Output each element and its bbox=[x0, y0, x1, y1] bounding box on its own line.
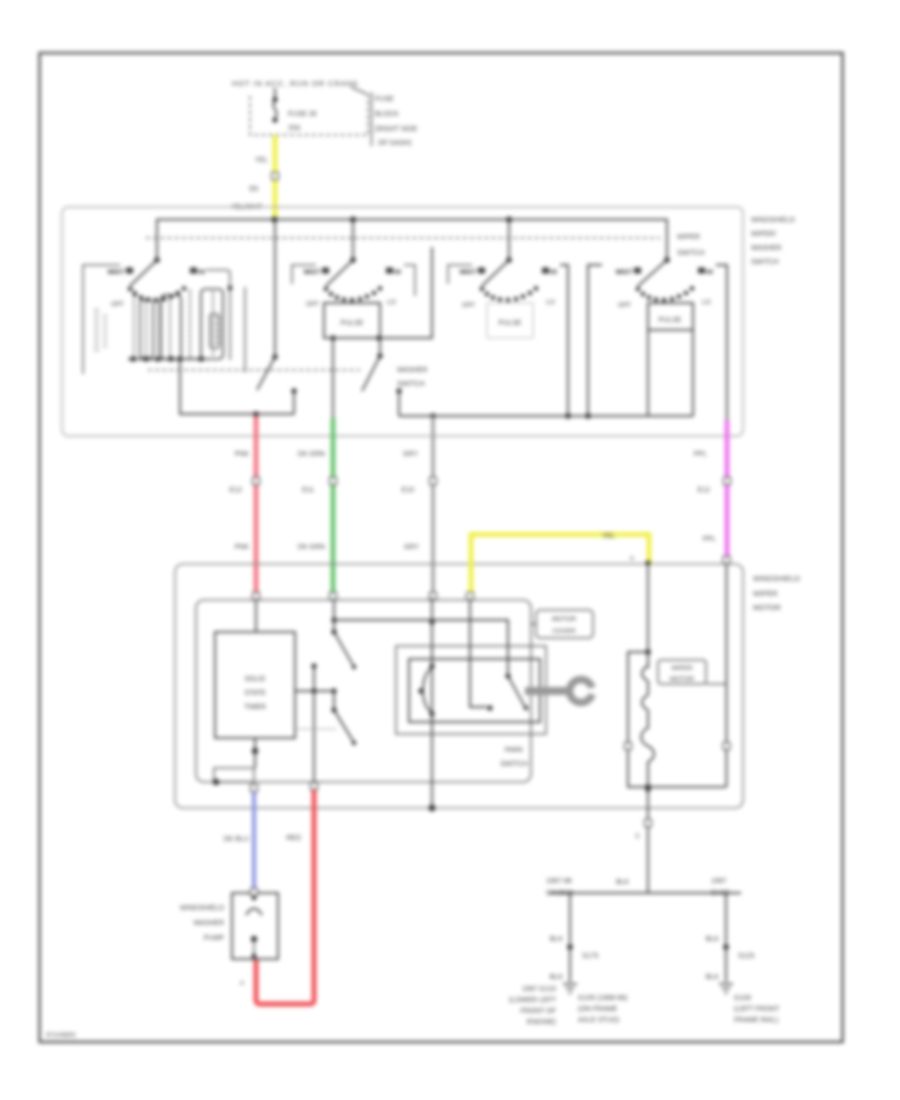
ladder bottom bus bbox=[128, 358, 206, 360]
park switch outer box bbox=[396, 646, 546, 734]
wire GRY inside bbox=[431, 598, 433, 666]
svg-text:BLK: BLK bbox=[706, 936, 720, 943]
park fixed contact node bbox=[487, 705, 492, 710]
label HI bbox=[190, 268, 197, 274]
svg-text:1997: 1997 bbox=[711, 878, 727, 885]
svg-text:YEL: YEL bbox=[255, 157, 268, 164]
pump motor symbol bbox=[246, 909, 262, 916]
svg-text:S175: S175 bbox=[582, 953, 598, 960]
windshield wiper motor box bbox=[175, 564, 743, 808]
washer switch contact 1 bbox=[257, 220, 297, 415]
washer arm 1 bbox=[257, 357, 275, 390]
node ladder 1 bbox=[130, 356, 135, 361]
ground G110/G105 bbox=[563, 984, 577, 993]
washer arm 2 bbox=[362, 356, 380, 391]
wire ladder to collector bbox=[179, 359, 181, 414]
park cam key bbox=[525, 687, 567, 695]
pulse box switch 4 bbox=[648, 303, 693, 330]
relay contact B bbox=[331, 691, 356, 745]
motor brush upper bbox=[642, 666, 648, 681]
connector E12 on PNK bbox=[253, 478, 260, 485]
node YEL at motor box bbox=[645, 560, 650, 565]
motor brush lower bbox=[642, 695, 648, 710]
svg-text:WINDSHIELD: WINDSHIELD bbox=[753, 574, 801, 583]
svg-text:RED: RED bbox=[286, 835, 301, 842]
resistor R-A bbox=[161, 295, 181, 359]
svg-text:DK GRN: DK GRN bbox=[298, 451, 325, 458]
connector PPL at motor box bbox=[723, 557, 730, 564]
ground G100 bbox=[719, 984, 733, 993]
svg-text:E12: E12 bbox=[230, 487, 243, 494]
dashed relay link bbox=[298, 728, 336, 730]
splice S175 bbox=[567, 944, 573, 950]
wire label box to PPL bbox=[706, 683, 726, 685]
wire pulse2 to gang link bbox=[379, 247, 432, 338]
rotary switch section 1 (delay/mist) bbox=[83, 257, 245, 414]
wiper arm switch 3 bbox=[482, 260, 509, 286]
wire MIST switch4 to collector bbox=[588, 265, 602, 416]
washer contact node 1 bbox=[291, 388, 296, 393]
node ladder 2 bbox=[143, 356, 148, 361]
connector square right bracket bbox=[723, 743, 730, 750]
wire pulse4 right drop bbox=[692, 330, 694, 416]
svg-text:A: A bbox=[630, 556, 634, 562]
svg-text:MIST: MIST bbox=[616, 269, 633, 276]
wire HI switch4 to PPL bbox=[716, 265, 727, 420]
wire GRY to motor ground bus bbox=[431, 714, 433, 808]
wire HI switch3 to collector bbox=[560, 265, 568, 416]
node ladder 3 bbox=[155, 356, 160, 361]
connector pump bottom bbox=[252, 954, 257, 959]
svg-text:HI: HI bbox=[550, 269, 557, 276]
node GRY tap bbox=[430, 413, 436, 419]
svg-text:PUMP: PUMP bbox=[204, 935, 225, 942]
node bus to switch 3 bbox=[506, 217, 512, 223]
vertical value text mid bbox=[103, 316, 107, 346]
resistor R-D bbox=[210, 314, 219, 348]
svg-text:LO: LO bbox=[546, 299, 555, 306]
svg-text:HI: HI bbox=[706, 269, 713, 276]
svg-text:OF DASH): OF DASH) bbox=[378, 140, 411, 147]
wiper motor label box bbox=[658, 660, 706, 684]
svg-text:HI: HI bbox=[198, 269, 205, 276]
svg-text:WIPER: WIPER bbox=[753, 589, 778, 598]
pivot node switch 2 bbox=[350, 257, 356, 263]
svg-text:OFF: OFF bbox=[111, 301, 124, 308]
svg-text:SWITCH: SWITCH bbox=[500, 761, 528, 768]
svg-text:(RIGHT SIDE: (RIGHT SIDE bbox=[375, 126, 418, 133]
svg-text:GRY: GRY bbox=[403, 451, 418, 458]
contact arc switch 3 bbox=[480, 286, 538, 302]
park switch inner box bbox=[409, 659, 540, 722]
pivot node switch 4 bbox=[664, 257, 670, 263]
svg-text:OFF: OFF bbox=[306, 301, 319, 308]
svg-text:HI: HI bbox=[394, 269, 401, 276]
wire YEL from fuse bbox=[273, 135, 278, 217]
wire GRY bbox=[432, 416, 435, 598]
svg-text:WINDSHIELD: WINDSHIELD bbox=[751, 217, 795, 224]
connector GRY at cover bbox=[430, 593, 437, 600]
node switch4 MIST tap bbox=[585, 413, 591, 419]
svg-text:AXLE STUD): AXLE STUD) bbox=[578, 1017, 619, 1024]
pulse box switch 2 bbox=[324, 303, 380, 338]
arm contact A bbox=[334, 632, 353, 665]
svg-text:FUSE 28: FUSE 28 bbox=[288, 111, 317, 118]
svg-text:PPL: PPL bbox=[694, 451, 707, 458]
svg-text:MIST: MIST bbox=[304, 269, 321, 276]
collector wire right bbox=[399, 415, 693, 417]
wire PPL bbox=[725, 420, 730, 565]
svg-text:DK BLU: DK BLU bbox=[224, 836, 249, 843]
svg-text:E9: E9 bbox=[249, 186, 258, 193]
circuit breaker element bbox=[418, 663, 434, 716]
pivot node switch 3 bbox=[506, 257, 512, 263]
wire jumper to park switch bbox=[334, 620, 508, 673]
node PNK tap bbox=[253, 411, 259, 417]
svg-text:WINDSHIELD: WINDSHIELD bbox=[180, 905, 224, 912]
fuse block dashed box bbox=[250, 94, 368, 135]
pulse box switch 3 bbox=[487, 303, 533, 338]
connector DK BLU at cover bottom bbox=[251, 785, 258, 792]
resistor block right rail bbox=[244, 287, 246, 372]
svg-text:WIPER: WIPER bbox=[677, 234, 700, 241]
fuse F28 25A bbox=[272, 88, 277, 123]
svg-text:G100: G100 bbox=[734, 995, 751, 1002]
node pulse2 right bbox=[376, 335, 381, 340]
svg-text:MOTOR: MOTOR bbox=[753, 603, 781, 612]
ground branch right bbox=[706, 893, 755, 993]
connector C bbox=[645, 820, 652, 827]
svg-text:PNK: PNK bbox=[235, 544, 250, 551]
ground branch left bbox=[550, 893, 599, 993]
svg-text:FRAME RAIL): FRAME RAIL) bbox=[734, 1017, 778, 1024]
timer relay coil box bbox=[214, 768, 254, 782]
svg-text:TIMER: TIMER bbox=[244, 704, 266, 711]
wire bus to washer pivot 1 bbox=[274, 220, 276, 358]
svg-text:LO: LO bbox=[702, 299, 711, 306]
node ladder 5 bbox=[177, 356, 182, 361]
dashed gang line upper bbox=[146, 237, 660, 239]
svg-text:WASHER: WASHER bbox=[751, 245, 781, 252]
svg-text:STATE: STATE bbox=[244, 690, 266, 697]
node GRY at box bottom bbox=[429, 805, 436, 812]
svg-text:MOTOR: MOTOR bbox=[670, 676, 694, 683]
svg-text:1997 G110: 1997 G110 bbox=[522, 986, 556, 993]
svg-text:ENGINE): ENGINE) bbox=[527, 1019, 556, 1026]
svg-text:MIST: MIST bbox=[108, 269, 125, 276]
terminal bracket left switch 1 bbox=[83, 265, 120, 374]
node timer output bbox=[254, 738, 256, 768]
svg-text:LO: LO bbox=[387, 299, 396, 306]
vertical value text left bbox=[94, 310, 99, 350]
motor bracket bbox=[628, 652, 726, 787]
wire BLK ground drop bbox=[647, 808, 649, 893]
pivot node switch 1 bbox=[154, 257, 160, 263]
connector E11 on DK GRN bbox=[330, 478, 337, 485]
svg-text:E11: E11 bbox=[302, 487, 314, 494]
svg-text:GRY: GRY bbox=[404, 544, 419, 551]
wiper motor assembly bbox=[625, 565, 731, 808]
svg-text:DK GRN: DK GRN bbox=[298, 544, 325, 551]
supply bus wire inside switch bbox=[157, 220, 667, 261]
svg-text:PULSE: PULSE bbox=[341, 320, 364, 327]
svg-text:G105 (1988-96): G105 (1988-96) bbox=[578, 995, 627, 1002]
svg-text:PULSE: PULSE bbox=[659, 317, 682, 324]
wire YEL jumper bbox=[471, 535, 649, 601]
connector E12 on PPL bbox=[724, 478, 731, 485]
motor cover label box bbox=[536, 610, 593, 638]
relay common wire bbox=[295, 690, 334, 692]
svg-text:A: A bbox=[240, 981, 244, 987]
svg-text:(ON FRAME: (ON FRAME bbox=[578, 1006, 618, 1013]
svg-text:E10: E10 bbox=[402, 487, 415, 494]
collector wire left bbox=[179, 413, 294, 415]
wire pulse2 to washer pivot bbox=[379, 338, 381, 356]
windshield wiper/washer switch box bbox=[62, 207, 743, 436]
windshield washer pump box bbox=[232, 893, 278, 959]
connector RED at cover bottom bbox=[311, 783, 318, 790]
svg-text:SWITCH: SWITCH bbox=[677, 250, 705, 257]
wire DK BLU bbox=[252, 792, 256, 890]
svg-text:BLK: BLK bbox=[616, 879, 630, 886]
svg-text:BLK: BLK bbox=[706, 974, 720, 981]
relay contact A (green) bbox=[331, 600, 356, 669]
svg-text:25A: 25A bbox=[288, 125, 301, 132]
svg-text:1997-98: 1997-98 bbox=[546, 878, 572, 885]
ground distribution wire bbox=[549, 892, 741, 894]
rotary switch section 2 (pulse) bbox=[292, 247, 432, 356]
dashed gang line washer bbox=[148, 369, 360, 371]
svg-text:YEL: YEL bbox=[602, 533, 615, 540]
terminal bracket left switch 2 bbox=[292, 265, 316, 284]
svg-text:BLK: BLK bbox=[550, 936, 564, 943]
connector pump top bbox=[251, 889, 258, 896]
node bus to switch 2 bbox=[350, 217, 356, 223]
connector square left bracket bbox=[625, 743, 632, 750]
svg-text:HOT IN ACC, RUN OR CRANK: HOT IN ACC, RUN OR CRANK bbox=[232, 79, 358, 88]
motor cover outline bbox=[196, 600, 531, 782]
wiper arm switch 4 bbox=[638, 260, 667, 286]
label HI bbox=[542, 268, 549, 274]
node motor ground bbox=[645, 786, 651, 792]
wire pulse4 left drop bbox=[647, 330, 649, 416]
svg-text:PULSE: PULSE bbox=[499, 320, 522, 327]
svg-text:COVER: COVER bbox=[552, 628, 575, 635]
connector PNK at cover bbox=[253, 593, 260, 600]
contact arc switch 1 bbox=[128, 286, 186, 302]
vertical value text right bbox=[215, 318, 220, 342]
resistor R-C bbox=[140, 300, 153, 358]
svg-text:E12: E12 bbox=[698, 487, 711, 494]
svg-text:PPL: PPL bbox=[703, 536, 716, 543]
svg-text:OFF: OFF bbox=[462, 302, 475, 309]
motor winding bbox=[641, 710, 654, 787]
svg-text:SWITCH: SWITCH bbox=[397, 381, 425, 388]
wire to washer pump feed bbox=[313, 691, 315, 782]
pump terminal node bbox=[252, 896, 257, 901]
leader line to fuse block box bbox=[351, 87, 367, 94]
svg-text:BLK: BLK bbox=[550, 974, 564, 981]
wire PPL inside motor box bbox=[726, 565, 728, 787]
svg-text:PNK: PNK bbox=[235, 451, 250, 458]
svg-text:WASHER: WASHER bbox=[194, 920, 224, 927]
contact arc switch 2 bbox=[324, 286, 382, 302]
svg-text:SOLID: SOLID bbox=[244, 676, 265, 683]
wire YEL leg to park contact bbox=[470, 600, 487, 707]
contact arc switch 4 bbox=[636, 286, 694, 302]
wire feed to motor bbox=[647, 565, 649, 668]
connector E9 bbox=[272, 173, 279, 180]
node ladder 4 bbox=[168, 356, 173, 361]
delay resistor ladder bbox=[94, 289, 223, 414]
svg-text:BLOCK: BLOCK bbox=[375, 111, 399, 118]
svg-text:FUSE: FUSE bbox=[375, 96, 394, 103]
svg-text:MIST: MIST bbox=[460, 269, 477, 276]
svg-text:OFF: OFF bbox=[618, 302, 631, 309]
svg-text:WIPER/: WIPER/ bbox=[751, 231, 776, 238]
label HI bbox=[386, 268, 393, 274]
fuse block bracket bbox=[371, 92, 373, 146]
svg-text:PARK: PARK bbox=[505, 747, 524, 754]
splice S125 bbox=[723, 944, 729, 950]
node yellow feed junction bbox=[272, 217, 278, 223]
node switch3 HI tap bbox=[565, 413, 571, 419]
wire DK GRN bbox=[331, 418, 336, 600]
terminal bracket right switch 2 bbox=[404, 265, 415, 296]
terminal bracket left switch 3 bbox=[448, 265, 472, 284]
wire PNK bbox=[254, 416, 259, 600]
svg-text:MOTOR: MOTOR bbox=[552, 616, 576, 623]
wiper arm switch 1 bbox=[130, 260, 157, 286]
park switch arm bbox=[505, 673, 510, 678]
washer contact node 2 bbox=[396, 388, 401, 393]
svg-text:C: C bbox=[635, 833, 640, 840]
solid state timer box bbox=[215, 632, 295, 738]
node ladder 6 bbox=[198, 356, 203, 361]
label HI bbox=[698, 268, 705, 274]
wiper arm switch 2 bbox=[326, 260, 353, 286]
node pulse2 left bbox=[330, 335, 335, 340]
svg-text:BASE: BASE bbox=[711, 890, 730, 897]
washer switch contact 2 bbox=[362, 353, 402, 416]
connector DK GRN at cover bbox=[330, 593, 337, 600]
wire PNK into timer bbox=[255, 600, 257, 632]
rotary switch section 4 (pulse) bbox=[588, 257, 727, 420]
svg-text:FRONT OF: FRONT OF bbox=[520, 1008, 556, 1015]
resistor R-B bbox=[201, 289, 223, 359]
svg-text:SWITCH: SWITCH bbox=[751, 259, 779, 266]
connector E10 on GRY bbox=[430, 478, 437, 485]
relay NC stub bbox=[311, 663, 316, 668]
svg-text:9710485S: 9710485S bbox=[46, 1032, 76, 1039]
pump lower node bbox=[251, 936, 257, 942]
rotary switch section 3 (pulse) bbox=[448, 257, 568, 416]
svg-text:WIPER: WIPER bbox=[671, 665, 693, 672]
svg-text:S125: S125 bbox=[738, 953, 754, 960]
node coil ground bbox=[213, 779, 219, 785]
wire DK GRN upper black bbox=[332, 338, 334, 418]
svg-text:WASHER: WASHER bbox=[397, 367, 427, 374]
wire RED bbox=[256, 790, 314, 1004]
svg-text:(LOWER LEFT: (LOWER LEFT bbox=[509, 997, 557, 1004]
connector YEL at cover bbox=[467, 593, 474, 600]
terminal bracket right switch 1 bbox=[206, 270, 230, 360]
svg-text:(LEFT FRONT: (LEFT FRONT bbox=[734, 1006, 780, 1013]
